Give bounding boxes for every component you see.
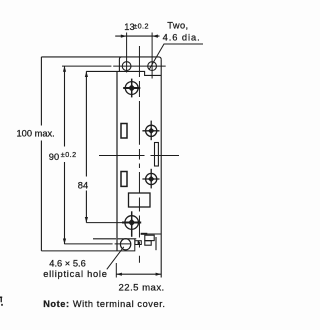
leader line to 4.6 dia hole with underline [149, 44, 203, 70]
left 4.6 dia hole [122, 62, 131, 71]
svg-text:Two,: Two, [167, 20, 188, 30]
arrowhead 22.5 right [156, 273, 162, 276]
tiny rectangle pair left [135, 241, 138, 245]
svg-text:Note: With terminal cover.: Note: With terminal cover. [43, 299, 165, 309]
big crosshair top (screw hole) [123, 79, 140, 98]
vertical centerline dash-dot [138, 46, 140, 263]
elliptical hole 4.6x5.6 [120, 239, 130, 250]
left small rectangle 2 [121, 172, 127, 187]
svg-text:±0.2: ±0.2 [133, 21, 149, 30]
22.5 left extension line [115, 263, 117, 278]
arrowhead 90 top [63, 66, 66, 72]
hole centerline horizontal through top holes [62, 65, 166, 67]
wide rectangle lower center [129, 193, 151, 207]
svg-text:84: 84 [78, 181, 88, 191]
svg-text:22.5 max.: 22.5 max. [119, 283, 165, 294]
dimension line 84 (broken for text) [85, 71, 87, 222]
svg-text:90: 90 [49, 152, 59, 162]
bracket left edge with rounded corner [119, 57, 121, 72]
horizontal centerline dash-dot [99, 154, 179, 156]
extension line 90 bottom through elliptical hole [65, 243, 132, 245]
small crosshair lower right [142, 169, 159, 189]
bottom tab with 100 max extension [41, 239, 134, 251]
narrow tall rectangle right [155, 143, 159, 167]
top extension line (plate top) and top edge [41, 57, 161, 59]
svg-text:4.6 × 5.6: 4.6 × 5.6 [49, 259, 85, 269]
hook rectangle B [145, 241, 151, 246]
arrowhead 90 bottom [63, 239, 66, 245]
dimension line 100 max (broken for text) [40, 57, 42, 251]
hook rectangle A [145, 235, 154, 240]
arrowhead 84 top [85, 71, 88, 77]
small crosshair upper right [142, 121, 159, 141]
hook top thick segment [141, 233, 148, 235]
arrowhead 22.5 left [116, 273, 122, 276]
dimension line 90±0.2 (broken for text) [64, 66, 66, 244]
body right edge continuing into 22.5 extension [160, 59, 162, 277]
dimension line 22.5 max [116, 273, 161, 275]
big crosshair bottom (screw hole) [122, 211, 141, 237]
hook right vertical [155, 237, 157, 250]
arrowhead 84 bottom [85, 217, 88, 223]
arrowhead left of 13 dim (outside, pointing right) [121, 35, 127, 38]
extension line through right 4.6 dia hole [151, 33, 153, 79]
cropped text fragment left edge [0, 297, 3, 306]
svg-text:±0.2: ±0.2 [61, 150, 77, 159]
right 4.6 dia hole [148, 62, 157, 71]
hook top line [141, 233, 162, 235]
svg-text:elliptical hole: elliptical hole [43, 269, 107, 279]
plate bottom edge with left extension [93, 238, 136, 240]
arrowhead right of 13 dim (outside, pointing left) [152, 35, 158, 38]
bracket bottom edge with 84 extension [86, 71, 161, 75]
extension line through left 4.6 dia hole [126, 33, 128, 73]
svg-text:100 max.: 100 max. [17, 129, 55, 139]
left small rectangle 1 [121, 124, 127, 139]
dimension line 13±0.2 [115, 35, 159, 37]
svg-text:4.6 dia.: 4.6 dia. [163, 32, 201, 42]
body left edge [116, 71, 118, 251]
leader line to elliptical hole [107, 247, 124, 269]
extension line 84 bottom to crosshair [86, 222, 122, 224]
